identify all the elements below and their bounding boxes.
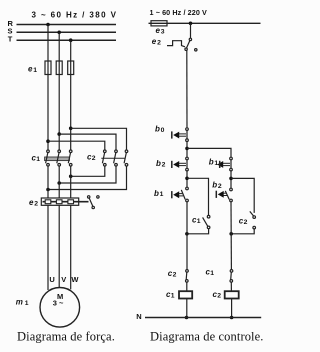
svg-text:m: m bbox=[16, 298, 23, 307]
node return on S bbox=[57, 181, 61, 185]
coil c2 label bbox=[213, 290, 222, 299]
svg-text:2: 2 bbox=[217, 292, 221, 299]
svg-text:b: b bbox=[155, 125, 160, 134]
wire phase R bus bbox=[17, 24, 117, 26]
overload trip pivot terminal bbox=[88, 196, 90, 198]
svg-text:N: N bbox=[136, 312, 141, 321]
trip contact blade bbox=[187, 41, 190, 48]
coil c1 label bbox=[166, 290, 175, 299]
wire V down to overload bbox=[58, 166, 60, 198]
pushbutton b1 NO contact bbox=[172, 187, 189, 202]
motor m1 label bbox=[16, 298, 29, 308]
overload e2 label bbox=[152, 37, 161, 47]
svg-text:U: U bbox=[49, 275, 54, 284]
wire b1 down to c2 NC bbox=[186, 202, 188, 270]
fuse e1 phase R bbox=[45, 61, 51, 75]
fuse e1 phase S bbox=[56, 61, 62, 75]
svg-text:3 ~ 60 Hz / 380 V: 3 ~ 60 Hz / 380 V bbox=[32, 11, 118, 20]
wire c2 col2 return to S bbox=[59, 166, 116, 183]
wire W to motor bbox=[70, 205, 72, 289]
svg-text:2: 2 bbox=[218, 183, 222, 190]
interlock c1 label bbox=[206, 268, 215, 277]
svg-text:e: e bbox=[28, 64, 33, 73]
wire b2 to junction bbox=[186, 171, 188, 187]
pushbutton b1 start label bbox=[154, 189, 164, 198]
interlock c2 label bbox=[168, 269, 177, 278]
svg-text:b: b bbox=[154, 189, 159, 198]
overload relay e2 label bbox=[29, 198, 38, 208]
node return on T bbox=[69, 175, 73, 179]
wire tap R to c2 col1 bbox=[48, 141, 105, 150]
overload relay e2 linkage line bbox=[43, 201, 89, 203]
wire tap S to c2 col2 bbox=[59, 134, 116, 150]
svg-text:3 ~: 3 ~ bbox=[53, 299, 64, 308]
wire b2 down to c1 NC bbox=[230, 202, 232, 270]
aux contact c2 NO bbox=[250, 211, 256, 229]
contactor c1 linkage bar bbox=[45, 157, 70, 161]
svg-text:e: e bbox=[156, 26, 161, 35]
pushbutton b2 start label bbox=[212, 180, 222, 189]
node branch to right column bbox=[185, 147, 189, 151]
wire c1 aux return bbox=[188, 229, 209, 234]
coil c2 bbox=[225, 291, 239, 298]
contactor c2 pole 2 bbox=[114, 150, 118, 166]
wire main control line down bbox=[186, 50, 188, 127]
wire c2 col1 return to T bbox=[71, 166, 105, 176]
aux contact c2 label bbox=[239, 217, 248, 226]
svg-text:Diagrama de controle.: Diagrama de controle. bbox=[150, 330, 264, 344]
node branch to c1 aux bbox=[185, 177, 189, 181]
wire control phase bus bbox=[149, 22, 261, 24]
overload trip open terminal bbox=[97, 196, 99, 198]
overload heater 2 bbox=[56, 200, 62, 204]
wire L2 down bbox=[58, 32, 60, 150]
svg-text:1: 1 bbox=[25, 300, 29, 307]
node L1 on R bbox=[46, 23, 50, 27]
wire W down to overload bbox=[70, 166, 72, 198]
wire neutral bus bbox=[145, 317, 261, 319]
trip contact open terminal bbox=[195, 49, 197, 51]
node tap T to c2 bbox=[69, 127, 73, 131]
node tap S to c2 bbox=[57, 132, 61, 136]
fuse e3 bbox=[151, 21, 167, 26]
node c2 on N bbox=[230, 316, 234, 320]
wire tap down to trip contact bbox=[190, 23, 192, 38]
pushbutton b1 NC contact right bbox=[217, 157, 232, 171]
interlock contact c2 NC bbox=[186, 270, 189, 283]
svg-text:1: 1 bbox=[171, 292, 175, 299]
svg-text:2: 2 bbox=[34, 200, 38, 207]
svg-text:b: b bbox=[209, 158, 214, 167]
pushbutton b0 NC contact bbox=[172, 128, 189, 142]
svg-text:2: 2 bbox=[157, 40, 161, 47]
trip contact top terminal bbox=[189, 38, 191, 40]
node return on R bbox=[46, 188, 50, 192]
node L3 on T bbox=[69, 38, 73, 42]
wire phase S bus bbox=[17, 31, 117, 33]
aux contact c1 NO bbox=[203, 215, 210, 228]
svg-text:T: T bbox=[8, 35, 13, 44]
svg-text:1: 1 bbox=[197, 218, 201, 225]
node tap R to c2 bbox=[46, 139, 50, 143]
wire V to motor bbox=[58, 205, 60, 287]
overload heater 3 bbox=[68, 200, 74, 204]
svg-text:2: 2 bbox=[244, 219, 248, 226]
wire branch to b1 right bbox=[187, 148, 231, 157]
wire phase T bus bbox=[17, 39, 117, 41]
interlock contact c1 NC bbox=[230, 270, 233, 283]
svg-text:V: V bbox=[61, 275, 66, 284]
wire c2 aux return bbox=[232, 229, 254, 234]
contactor c2 label bbox=[87, 153, 96, 162]
fuse e1 label bbox=[28, 64, 37, 74]
contactor c2 pole 1 bbox=[102, 150, 106, 166]
contactor c1 pole 2 bbox=[57, 150, 61, 166]
overload relay e2 body bbox=[41, 198, 78, 205]
svg-text:1: 1 bbox=[160, 191, 164, 198]
wire tap T to c2 col3 bbox=[71, 128, 127, 150]
coil c1 bbox=[179, 291, 192, 298]
overload NC contact e2 symbol bbox=[167, 41, 185, 47]
wire b1 right to junction bbox=[230, 171, 232, 188]
contactor c1 pole 1 bbox=[46, 150, 50, 166]
node c1 aux rejoin bbox=[185, 232, 189, 236]
svg-text:1: 1 bbox=[210, 270, 214, 277]
overload trip blade bbox=[89, 198, 93, 206]
pushbutton b1 interlock label bbox=[209, 158, 219, 167]
node c1 on N bbox=[185, 316, 189, 320]
contactor c2 pole 3 bbox=[124, 150, 128, 166]
contactor c2 linkage line bbox=[101, 157, 124, 159]
svg-text:W: W bbox=[71, 275, 79, 284]
wire L1 down bbox=[47, 25, 49, 151]
node c2 aux rejoin bbox=[229, 232, 233, 236]
svg-text:e: e bbox=[29, 198, 34, 207]
svg-text:1: 1 bbox=[33, 67, 37, 74]
wire c1 NC to coil c2 bbox=[230, 282, 232, 291]
wire b0 to junction bbox=[186, 142, 188, 158]
trip contact bottom terminal bbox=[185, 48, 187, 50]
svg-text:2: 2 bbox=[173, 272, 177, 279]
svg-text:1: 1 bbox=[214, 160, 218, 167]
aux contact c1 label bbox=[192, 216, 201, 225]
wire branch to c1 aux bbox=[187, 178, 209, 215]
contactor c1 pole 3 bbox=[68, 150, 72, 166]
fuse e3 label bbox=[156, 26, 165, 36]
svg-text:2: 2 bbox=[92, 155, 96, 162]
fuse e1 phase T bbox=[68, 61, 74, 75]
wire c2 col3 return to R bbox=[48, 166, 127, 189]
node L2 on S bbox=[57, 31, 61, 35]
pushbutton b2 NC contact left bbox=[172, 157, 189, 171]
motor M1 circle bbox=[40, 288, 80, 328]
wire L3 down bbox=[70, 40, 72, 150]
wire coil c1 to N bbox=[186, 299, 188, 318]
svg-text:e: e bbox=[152, 37, 157, 46]
node branch to c2 aux bbox=[229, 177, 233, 181]
pushbutton b2 interlock label bbox=[156, 159, 166, 168]
svg-text:0: 0 bbox=[161, 127, 165, 134]
svg-text:b: b bbox=[156, 159, 161, 168]
node control tap bbox=[189, 22, 193, 26]
overload heater 1 bbox=[45, 200, 51, 204]
overload trip moving terminal bbox=[92, 206, 94, 208]
pushbutton b2 NO contact bbox=[216, 188, 232, 202]
svg-text:1 ~ 60 Hz / 220 V: 1 ~ 60 Hz / 220 V bbox=[150, 8, 208, 17]
wire coil c2 to N bbox=[231, 299, 233, 318]
svg-text:1: 1 bbox=[36, 156, 40, 163]
svg-text:b: b bbox=[212, 180, 217, 189]
svg-text:2: 2 bbox=[162, 161, 166, 168]
svg-text:3: 3 bbox=[161, 28, 165, 35]
wire branch to c2 aux bbox=[231, 178, 254, 213]
wire c2 NC to coil c1 bbox=[186, 282, 188, 291]
svg-text:Diagrama de força.: Diagrama de força. bbox=[17, 330, 115, 344]
wire U down to overload bbox=[47, 166, 49, 198]
pushbutton b0 label bbox=[155, 125, 165, 134]
wire U to motor bbox=[47, 205, 49, 290]
contactor c1 label bbox=[32, 154, 41, 163]
